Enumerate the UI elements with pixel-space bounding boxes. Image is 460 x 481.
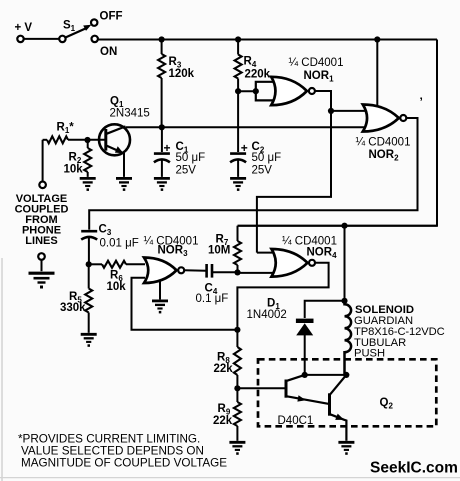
label NOR1 <box>304 70 335 84</box>
svg-text:120k: 120k <box>169 68 195 80</box>
ground below C1 <box>154 178 170 191</box>
op-amp U4 NOR4 gate <box>272 249 316 277</box>
svg-text:OFF: OFF <box>100 11 123 23</box>
label C4 <box>205 283 218 297</box>
svg-text:SeekIC.com: SeekIC.com <box>370 460 458 477</box>
wire R1 down to input terminal <box>42 140 44 181</box>
op-amp U3 NOR3 gate <box>144 258 184 284</box>
label R3 <box>169 56 182 70</box>
resistor R2 <box>84 140 91 177</box>
label C2 voltage <box>252 165 273 177</box>
label R7 value <box>208 245 230 257</box>
op-amp U1 NOR1 gate <box>271 77 315 105</box>
node NOR1out-NOR2in <box>328 108 334 114</box>
label Q1 type <box>110 108 150 120</box>
svg-text:¼ CD4001: ¼ CD4001 <box>289 57 344 69</box>
terminal voltage input upper <box>39 182 46 189</box>
node Q1 base <box>84 137 90 143</box>
terminal +V <box>17 36 23 42</box>
op-amp U2 NOR2 gate <box>363 105 407 132</box>
wire C4 to NOR4 node <box>212 271 238 273</box>
svg-text:0.01 μF: 0.01 μF <box>100 238 139 250</box>
wire NOR4 output return <box>237 263 328 330</box>
svg-text:¼ CD4001: ¼ CD4001 <box>356 137 411 149</box>
wire +V to switch pivot <box>24 38 59 40</box>
node rail-C1 <box>159 124 165 130</box>
label C2 plus <box>241 141 248 155</box>
label R5 <box>69 291 82 305</box>
capacitor C1 <box>154 127 170 177</box>
svg-text:0.1 μF: 0.1 μF <box>196 293 229 305</box>
wire D1 to solenoid bottom <box>305 374 347 376</box>
label NOR3 <box>158 245 189 259</box>
svg-text:220k: 220k <box>245 69 271 81</box>
ground below NOR3 <box>152 301 168 314</box>
svg-text:+: + <box>164 141 171 155</box>
capacitor C4 <box>207 264 212 278</box>
switch S1 <box>59 19 98 42</box>
node rail-NOR2 input <box>374 36 380 42</box>
label C3 <box>99 224 112 238</box>
svg-text:10M: 10M <box>208 245 230 257</box>
node solenoid-Q2 collector <box>343 372 349 378</box>
label R4 value <box>245 69 271 81</box>
svg-text:LINES: LINES <box>25 235 57 247</box>
wire R4 node down to C2 <box>237 91 239 152</box>
label R7 <box>216 234 229 248</box>
svg-text:PUSH: PUSH <box>354 348 385 360</box>
label R2 value <box>64 164 84 176</box>
wire base to Q2 <box>237 387 284 389</box>
wire solenoid to D1 <box>305 301 345 318</box>
wire collector rail y127 <box>126 126 365 128</box>
label C1 <box>176 141 189 155</box>
wire switched +V rail <box>98 39 437 41</box>
label S1 <box>63 20 76 34</box>
ground below input terminal <box>29 273 55 288</box>
tick mark <box>420 95 423 109</box>
terminal voltage input lower <box>38 253 45 271</box>
svg-text:22k: 22k <box>214 363 234 375</box>
wire NOR1 output <box>257 91 331 253</box>
label Q1 <box>110 96 124 110</box>
diode D1 <box>296 319 314 375</box>
resistor R4 <box>235 40 242 92</box>
label R3 value <box>169 68 195 80</box>
label Q2 <box>380 397 394 411</box>
label NOR4 type <box>282 236 337 248</box>
label R2 <box>69 152 82 166</box>
node R4-C2-NOR1 <box>235 88 241 94</box>
label OFF <box>100 11 123 23</box>
ground below Q2 emitter <box>338 442 354 455</box>
wire NOR2 top input from rail <box>376 40 378 108</box>
dashed box Q2 <box>258 359 436 426</box>
wire NOR3 lower input feedback <box>132 278 238 330</box>
node R8-R9-base <box>234 385 240 391</box>
node rail-R4 <box>235 36 241 42</box>
label R9 value <box>213 415 233 427</box>
node D1-Q2 collector <box>302 372 308 378</box>
label C1 value <box>176 152 206 164</box>
wire to NOR1 inputs <box>238 90 256 92</box>
scan artifact lines <box>0 258 460 481</box>
label D1 <box>267 298 280 312</box>
label R8 <box>217 352 230 366</box>
svg-text:+ V: + V <box>15 22 33 34</box>
label NOR4 <box>307 247 338 261</box>
svg-text:2N3415: 2N3415 <box>110 108 150 120</box>
label C2 value <box>252 152 282 164</box>
wire NOR4 upper input stub <box>257 252 275 254</box>
inductor solenoid coil <box>345 301 352 375</box>
label D40C1 <box>278 415 314 427</box>
wire NOR1 input bar <box>256 82 275 101</box>
svg-text:D40C1: D40C1 <box>278 415 314 427</box>
label NOR1 type <box>289 57 344 69</box>
node solenoid top <box>341 298 347 304</box>
label R6 <box>110 270 123 284</box>
label ON <box>100 46 117 58</box>
wire right-edge rail down <box>238 40 438 226</box>
transistor Q2b <box>330 375 347 441</box>
label NOR3 type <box>144 236 199 248</box>
ground below Q1 emitter <box>116 178 132 191</box>
ground below R5 <box>81 334 97 347</box>
label R6 value <box>107 281 127 293</box>
capacitor C2 <box>230 154 246 177</box>
svg-text:ON: ON <box>100 46 117 58</box>
capacitor C3 <box>81 231 97 264</box>
svg-text:’: ’ <box>420 95 423 109</box>
label R8 value <box>214 363 234 375</box>
label solenoid <box>354 304 445 360</box>
resistor R6 <box>89 261 145 268</box>
label R1 <box>57 122 75 136</box>
label R9 <box>218 403 231 417</box>
wire solenoid drop <box>344 226 346 301</box>
node rail-solenoid <box>341 223 347 229</box>
node R7-C4-NOR4 <box>234 269 240 275</box>
label +V <box>15 22 33 34</box>
resistor R8 <box>234 330 241 389</box>
wire NOR4 lower input stub <box>238 272 276 274</box>
watermark SeekIC <box>370 460 458 477</box>
svg-text:50 μF: 50 μF <box>252 152 282 164</box>
label NOR2 type <box>356 137 411 149</box>
wire NOR3 ground stem <box>159 280 161 299</box>
transistor Q2a <box>286 375 329 404</box>
svg-text:+: + <box>241 141 248 155</box>
label voltage coupled <box>15 193 69 247</box>
ground below R2 <box>80 178 96 191</box>
label C2 <box>252 141 265 155</box>
resistor R9 <box>234 388 241 441</box>
svg-text:10k: 10k <box>107 281 127 293</box>
label D1 type <box>247 309 287 321</box>
label C3 value <box>100 238 139 250</box>
wire rail to solenoid/R7 <box>238 225 438 227</box>
svg-text:25V: 25V <box>176 165 197 177</box>
node NOR1 input bar <box>253 88 259 94</box>
label R4 <box>244 56 257 70</box>
node rail-R3 <box>159 36 165 42</box>
resistor R5 <box>85 264 92 333</box>
transistor Q1 <box>99 124 130 177</box>
svg-text:50 μF: 50 μF <box>176 152 206 164</box>
node C3-R6-R5 <box>86 261 92 267</box>
wire NOR3 output to C4 <box>185 269 207 272</box>
svg-text:330k: 330k <box>60 302 86 314</box>
svg-text:25V: 25V <box>252 165 273 177</box>
wire NOR2 output feedback <box>89 118 417 230</box>
label C4 value <box>196 293 229 305</box>
label R5 value <box>60 302 86 314</box>
label NOR2 <box>369 149 400 163</box>
resistor R7 <box>234 226 241 273</box>
svg-text:MAGNITUDE OF COUPLED VOLTAGE: MAGNITUDE OF COUPLED VOLTAGE <box>21 457 227 470</box>
footnote <box>18 433 227 470</box>
label C1 voltage <box>176 165 197 177</box>
label C1 plus <box>164 141 171 155</box>
ground below C2 <box>230 178 246 191</box>
resistor R3 <box>158 40 165 128</box>
wire NOR2 upper input stub <box>331 110 365 112</box>
svg-text:22k: 22k <box>213 415 233 427</box>
resistor R1 <box>43 136 85 143</box>
ground below R9 <box>229 442 245 455</box>
svg-text:10k: 10k <box>64 164 84 176</box>
wire base to Q1 <box>88 139 105 141</box>
svg-text:1N4002: 1N4002 <box>247 309 287 321</box>
node feedback-R8 <box>234 327 240 333</box>
